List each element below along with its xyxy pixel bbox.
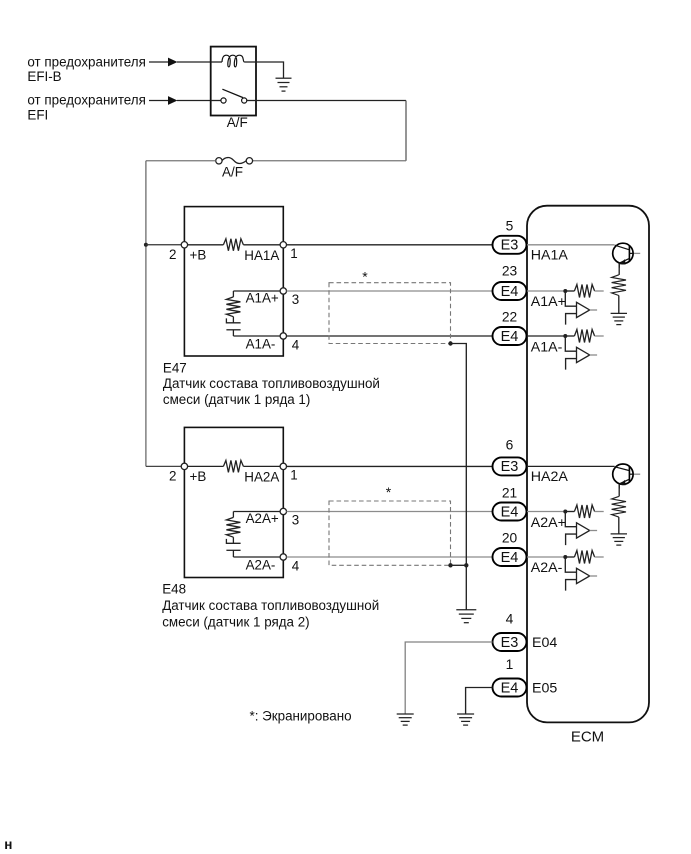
- svg-text:22: 22: [502, 310, 517, 325]
- svg-text:*: Экранировано: *: Экранировано: [250, 709, 352, 724]
- sensor box E47: [184, 207, 283, 356]
- svg-text:E05: E05: [532, 681, 557, 697]
- svg-text:Датчик состава топливовоздушно: Датчик состава топливовоздушной: [163, 376, 380, 391]
- wire Q2 resistor to ground: [618, 517, 620, 534]
- arrow EFI-B feed: [149, 61, 169, 63]
- svg-text:E4: E4: [501, 680, 519, 696]
- fuse A/F left terminal: [216, 158, 222, 164]
- svg-text:A1A+: A1A+: [531, 294, 566, 310]
- wire EFI-B arrow to relay: [177, 61, 211, 63]
- heater resistor HA2A: [223, 460, 243, 472]
- sensor cell plates: [226, 318, 240, 322]
- svg-text:A/F: A/F: [227, 115, 248, 130]
- connector E4 pin21 A2A+: [493, 503, 527, 521]
- svg-text:EFI: EFI: [27, 107, 48, 122]
- wire heater left: [184, 465, 223, 467]
- svg-text:1: 1: [290, 246, 297, 261]
- wire cell bottom to terminal 4: [233, 335, 283, 337]
- svg-text:смеси (датчик 1 ряда 2): смеси (датчик 1 ряда 2): [162, 614, 309, 629]
- terminal 2: [181, 242, 187, 248]
- svg-text:н: н: [4, 837, 12, 852]
- svg-text:21: 21: [502, 486, 517, 501]
- svg-text:4: 4: [292, 337, 300, 352]
- terminal 3: [280, 508, 286, 514]
- sensor cell resistor: [232, 512, 234, 518]
- relay switch arm: [222, 89, 243, 97]
- relay coil wire left: [211, 61, 222, 63]
- terminal 4: [280, 554, 286, 560]
- wire E3.6 base + transistor Q2: [527, 465, 615, 467]
- svg-text:E4: E4: [501, 329, 519, 345]
- connector E4 pin23 A1A+: [493, 282, 527, 300]
- svg-text:A2A-: A2A-: [531, 560, 563, 576]
- resistor (Q2 emitter): [618, 485, 620, 497]
- ground (Q2): [611, 533, 627, 535]
- svg-text:E4: E4: [501, 504, 519, 520]
- svg-text:E4: E4: [501, 550, 519, 566]
- wire HA2A E48.1 to E3: [287, 465, 493, 467]
- svg-text:от предохранителя: от предохранителя: [27, 93, 145, 108]
- svg-text:20: 20: [502, 531, 518, 546]
- wire E3.5 base + transistor Q1: [527, 244, 615, 246]
- svg-text:*: *: [362, 269, 368, 285]
- svg-text:Датчик состава топливовоздушно: Датчик состава топливовоздушной: [162, 598, 379, 613]
- terminal 2: [181, 463, 187, 469]
- svg-text:HA1A: HA1A: [531, 248, 569, 264]
- svg-text:смеси (датчик 1 ряда 1): смеси (датчик 1 ряда 1): [163, 392, 310, 407]
- svg-text:A2A+: A2A+: [531, 515, 566, 531]
- ECM box: [527, 206, 649, 723]
- shield (E48 cable): [329, 501, 451, 565]
- sensor box E48: [184, 427, 283, 577]
- svg-text:HA1A: HA1A: [244, 248, 279, 263]
- svg-text:E04: E04: [532, 635, 557, 651]
- arrow EFI feed: [149, 100, 169, 102]
- svg-text:4: 4: [506, 612, 514, 627]
- wire E4.21 internal + resistor + op-amp U3 (A2A+): [527, 511, 565, 513]
- svg-text:A/F: A/F: [222, 164, 243, 179]
- svg-text:6: 6: [506, 438, 514, 453]
- svg-text:*: *: [386, 484, 392, 500]
- wire +B branch to E47: [146, 244, 185, 246]
- svg-text:5: 5: [506, 219, 514, 234]
- node shield drain junction: [464, 563, 468, 567]
- connector E4 pin20 A2A-: [493, 548, 527, 566]
- wire E05 to ground: [466, 688, 493, 714]
- svg-text:E3: E3: [501, 238, 519, 254]
- svg-text:1: 1: [506, 657, 514, 672]
- terminal 4: [280, 333, 286, 339]
- node +B branch E47: [144, 243, 148, 247]
- svg-text:E48: E48: [162, 582, 186, 597]
- wire heater right: [243, 465, 283, 467]
- heater resistor HA1A: [223, 239, 243, 251]
- svg-text:4: 4: [292, 558, 300, 573]
- svg-text:A2A-: A2A-: [246, 558, 276, 573]
- svg-text:E4: E4: [501, 284, 519, 300]
- shield (E47 cable): [329, 283, 451, 344]
- terminal 1: [280, 242, 286, 248]
- terminal 1: [280, 463, 286, 469]
- wire E4.20 internal + resistor + op-amp U4 (A2A-): [527, 556, 565, 558]
- wire heater right: [243, 244, 283, 246]
- relay switch wire left: [211, 100, 221, 102]
- fuse A/F element: [222, 158, 246, 164]
- connector E3 pin4 E04: [493, 633, 527, 651]
- relay switch contact left: [221, 98, 226, 103]
- wire A2A- E48.4 to E4: [287, 556, 493, 558]
- svg-text:A1A-: A1A-: [246, 337, 276, 352]
- resistor (Q1 emitter): [618, 264, 620, 275]
- svg-text:от предохранителя: от предохранителя: [27, 55, 145, 70]
- relay coil wire right: [245, 61, 256, 63]
- wire E04 to ground: [405, 642, 492, 714]
- node shield2 drain: [448, 563, 452, 567]
- sensor cell resistor: [232, 291, 234, 297]
- wire relay coil to ground: [256, 62, 284, 78]
- svg-text:A1A+: A1A+: [246, 291, 279, 306]
- svg-text:2: 2: [169, 247, 176, 262]
- wire relay to right corner down: [256, 100, 406, 102]
- svg-text:E3: E3: [501, 459, 519, 475]
- svg-text:2: 2: [169, 469, 176, 484]
- terminal 3: [280, 288, 286, 294]
- svg-text:ECM: ECM: [571, 729, 604, 746]
- node shield1 drain: [448, 341, 452, 345]
- svg-text:E3: E3: [501, 635, 519, 651]
- ground (shield drain): [456, 609, 476, 611]
- ground (E04): [397, 713, 414, 715]
- svg-text:3: 3: [292, 292, 299, 307]
- connector E3 pin5 HA1A: [493, 236, 527, 254]
- relay A/F box: [211, 47, 256, 116]
- wire cell bottom to terminal 4: [233, 556, 283, 558]
- svg-text:A1A-: A1A-: [531, 340, 563, 356]
- wire cell top to terminal 3: [233, 511, 283, 513]
- connector E4 pin1 E05: [493, 679, 527, 697]
- wire Q1 resistor to ground: [618, 296, 620, 314]
- wire HA1A E47.1 to E3: [287, 244, 493, 246]
- wire A1A- E47.4 to E4: [287, 335, 493, 337]
- wire fuse to +B feed vertical: [146, 160, 216, 162]
- wire shield2 drain: [451, 564, 467, 566]
- svg-text:23: 23: [502, 264, 518, 279]
- svg-text:EFI-B: EFI-B: [27, 69, 61, 84]
- wire heater left: [184, 244, 223, 246]
- sensor cell plates: [226, 539, 240, 543]
- connector E3 pin6 HA2A: [493, 457, 527, 475]
- connector E4 pin22 A1A-: [493, 327, 527, 345]
- ground (E05): [457, 713, 474, 715]
- wire E4.23 internal + resistor + op-amp U1 (A1A+): [527, 290, 565, 292]
- wire shield drain to ground: [465, 565, 467, 609]
- wire shield1 drain: [451, 344, 467, 566]
- wire E4.22 internal + resistor + op-amp U2 (A1A-): [527, 335, 565, 337]
- relay switch wire right: [247, 100, 256, 102]
- fuse A/F right terminal: [246, 158, 252, 164]
- wire A2A+ E48.3 to E4: [287, 511, 493, 513]
- relay switch contact right: [242, 98, 247, 103]
- ground (relay coil): [276, 77, 292, 79]
- ground (Q1): [611, 312, 627, 314]
- wire EFI arrow to relay: [177, 100, 211, 102]
- wire cell top to terminal 3: [233, 290, 283, 292]
- svg-text:HA2A: HA2A: [244, 470, 279, 485]
- relay coil L1: [222, 55, 245, 67]
- svg-text:E47: E47: [163, 361, 187, 376]
- svg-text:+B: +B: [190, 469, 207, 484]
- svg-text:+B: +B: [190, 248, 207, 263]
- svg-text:1: 1: [290, 468, 297, 483]
- svg-text:A2A+: A2A+: [246, 511, 279, 526]
- wire A1A+ E47.3 to E4: [287, 290, 493, 292]
- svg-text:3: 3: [292, 513, 299, 528]
- svg-text:HA2A: HA2A: [531, 469, 569, 485]
